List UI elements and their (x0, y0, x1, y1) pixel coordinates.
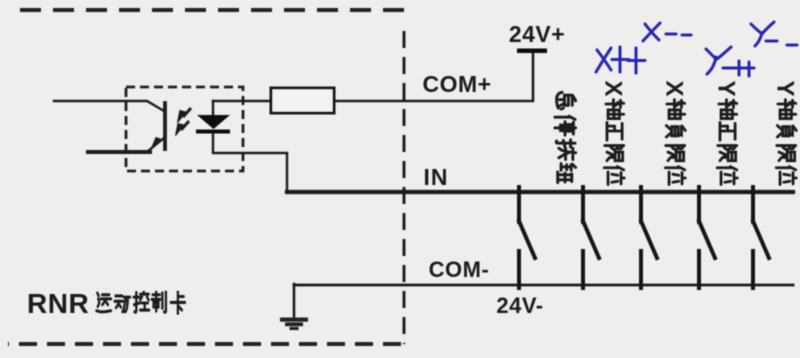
svg-text:COM+: COM+ (422, 71, 491, 97)
svg-text:X: X (661, 80, 688, 96)
svg-text:24V+: 24V+ (509, 21, 565, 47)
svg-text:X: X (600, 80, 627, 96)
svg-text:Y: Y (713, 80, 740, 96)
svg-text:COM-: COM- (429, 257, 490, 282)
svg-text:Y: Y (772, 80, 799, 96)
svg-text:RNR: RNR (27, 288, 89, 319)
svg-text:IN: IN (424, 164, 449, 190)
svg-text:24V-: 24V- (496, 293, 543, 318)
